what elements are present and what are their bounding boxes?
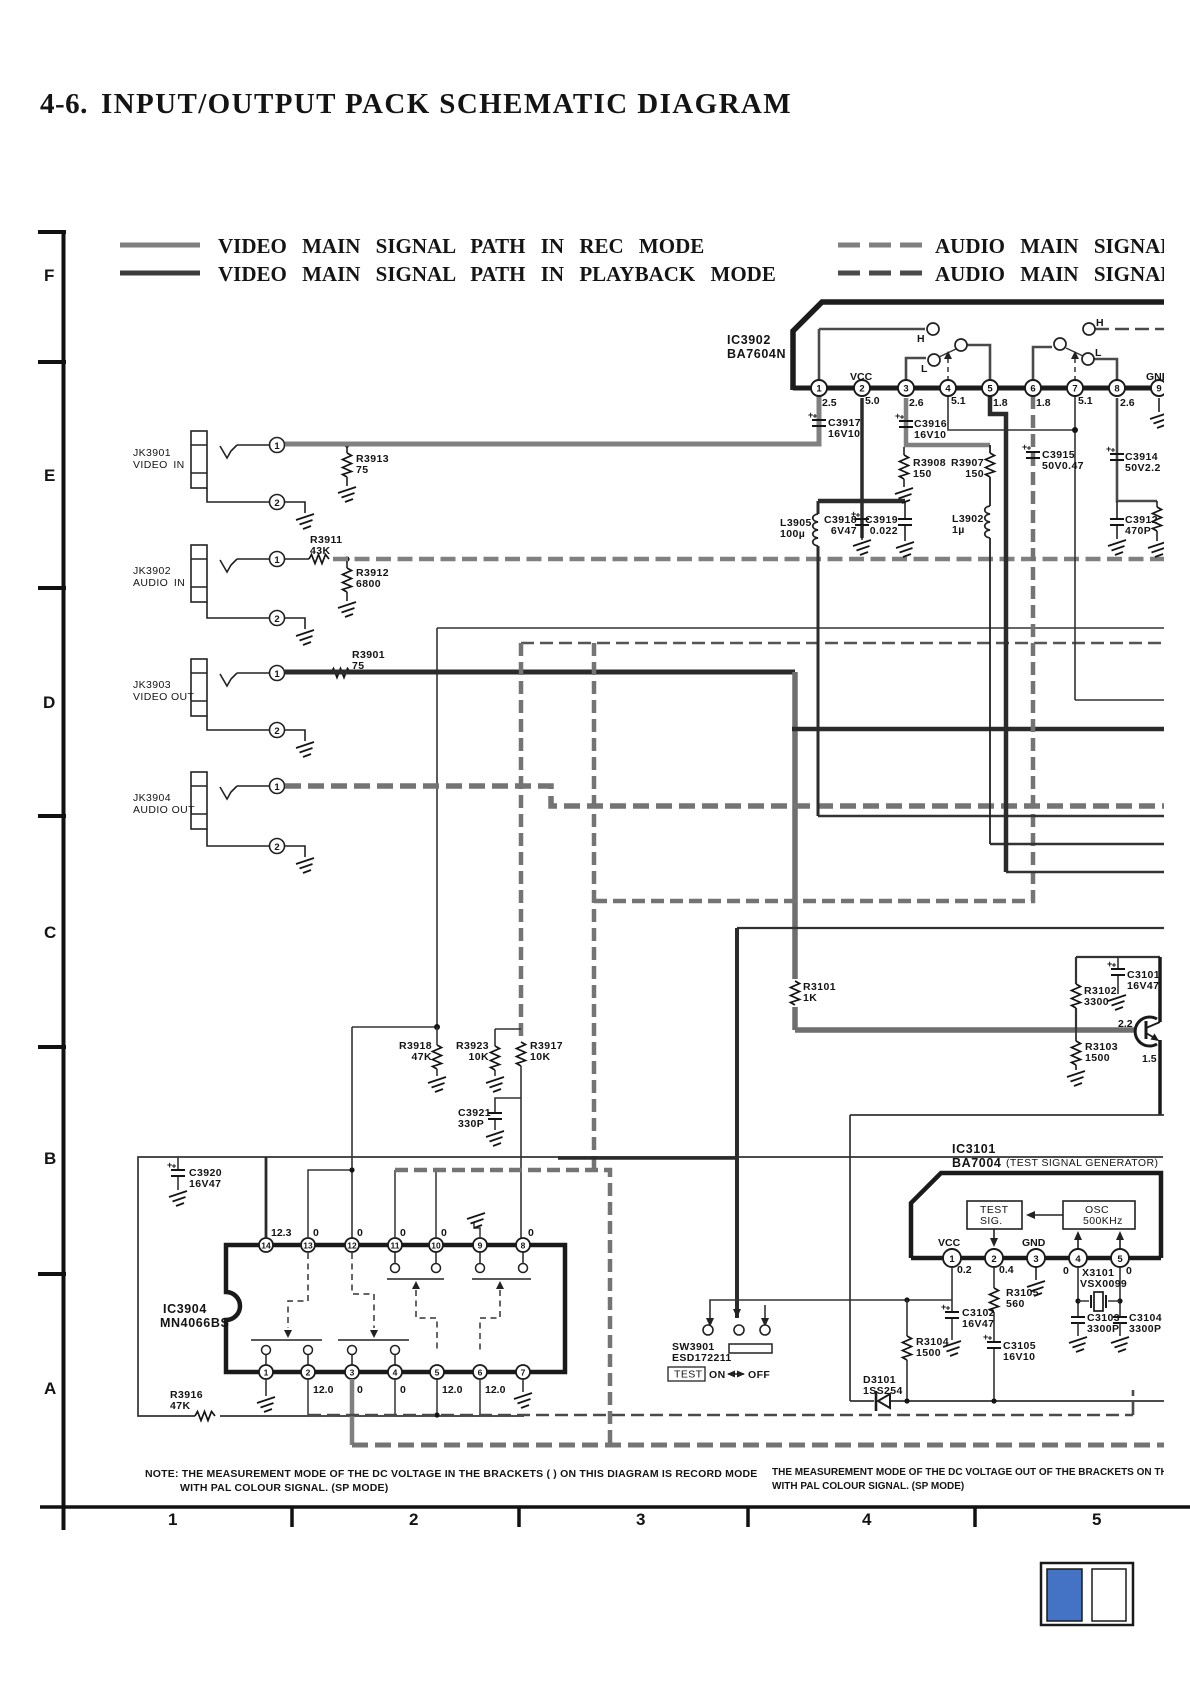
svg-text:4: 4 [862, 1510, 872, 1529]
svg-text:10K: 10K [469, 1051, 489, 1063]
svg-text:7: 7 [1072, 384, 1077, 395]
svg-text:VIDEO MAIN SIGNAL PATH IN PLAY: VIDEO MAIN SIGNAL PATH IN PLAYBACK MODE [218, 262, 776, 286]
svg-text:47K: 47K [170, 1400, 190, 1412]
svg-text:8: 8 [1114, 384, 1119, 395]
svg-text:5: 5 [1117, 1254, 1123, 1265]
svg-text:100µ: 100µ [780, 528, 805, 540]
svg-text:VSX0099: VSX0099 [1080, 1278, 1127, 1290]
svg-text:0: 0 [313, 1227, 319, 1239]
svg-text:2.2: 2.2 [1118, 1018, 1133, 1030]
svg-text:330P: 330P [458, 1118, 484, 1130]
svg-text:2.6: 2.6 [909, 397, 924, 409]
svg-text:JK3904: JK3904 [133, 792, 171, 804]
svg-text:4-6.: 4-6. [40, 88, 88, 120]
svg-text:H: H [1096, 317, 1104, 329]
svg-text:3300P: 3300P [1087, 1323, 1119, 1335]
svg-text:5: 5 [1092, 1510, 1101, 1529]
svg-text:2: 2 [274, 842, 279, 853]
svg-text:150: 150 [913, 468, 932, 480]
svg-text:JK3903: JK3903 [133, 679, 171, 691]
svg-text:IC3101: IC3101 [952, 1142, 996, 1156]
svg-text:IC3904: IC3904 [163, 1302, 207, 1316]
svg-text:(TEST SIGNAL GENERATOR): (TEST SIGNAL GENERATOR) [1006, 1157, 1158, 1169]
svg-text:VCC: VCC [850, 371, 873, 383]
svg-text:6800: 6800 [356, 578, 381, 590]
svg-text:16V47: 16V47 [189, 1178, 221, 1190]
svg-text:16V10: 16V10 [828, 428, 860, 440]
svg-text:ON: ON [709, 1369, 726, 1381]
svg-text:VIDEO MAIN SIGNAL PATH IN REC: VIDEO MAIN SIGNAL PATH IN REC MODE [218, 234, 704, 258]
svg-text:VIDEO IN: VIDEO IN [133, 459, 185, 471]
svg-text:4: 4 [393, 1368, 398, 1378]
svg-text:MN4066BS: MN4066BS [160, 1316, 229, 1330]
svg-text:0: 0 [400, 1227, 406, 1239]
svg-text:1.8: 1.8 [1036, 397, 1051, 409]
svg-text:0: 0 [400, 1384, 406, 1396]
svg-text:1: 1 [274, 782, 280, 793]
svg-text:3: 3 [636, 1510, 645, 1529]
svg-text:2: 2 [274, 498, 279, 509]
svg-text:0: 0 [1063, 1265, 1069, 1277]
svg-text:JK3902: JK3902 [133, 565, 171, 577]
svg-text:6: 6 [1030, 384, 1035, 395]
svg-text:4: 4 [945, 384, 951, 395]
svg-text:AUDIO MAIN SIGNAL PATH: AUDIO MAIN SIGNAL PATH [935, 262, 1190, 286]
svg-text:12.0: 12.0 [442, 1384, 463, 1396]
svg-text:INPUT/OUTPUT PACK SCHEMATIC DI: INPUT/OUTPUT PACK SCHEMATIC DIAGRAM [101, 88, 792, 120]
svg-text:2.6: 2.6 [1120, 397, 1135, 409]
svg-text:2: 2 [409, 1510, 418, 1529]
svg-text:5: 5 [435, 1368, 440, 1378]
svg-text:A: A [44, 1379, 56, 1398]
svg-text:C: C [44, 923, 56, 942]
svg-text:8: 8 [521, 1241, 526, 1251]
svg-text:1K: 1K [803, 992, 817, 1004]
svg-text:2: 2 [274, 614, 279, 625]
svg-text:6: 6 [478, 1368, 483, 1378]
svg-text:43K: 43K [310, 545, 330, 557]
svg-text:WITH PAL COLOUR SIGNAL. (SP MO: WITH PAL COLOUR SIGNAL. (SP MODE) [772, 1481, 964, 1492]
svg-text:NOTE: THE MEASUREMENT MODE OF: NOTE: THE MEASUREMENT MODE OF THE DC VOL… [145, 1468, 757, 1480]
svg-text:3300: 3300 [1084, 996, 1109, 1008]
svg-text:1: 1 [274, 555, 280, 566]
svg-text:5.1: 5.1 [951, 395, 966, 407]
svg-text:10K: 10K [530, 1051, 550, 1063]
svg-text:0: 0 [357, 1227, 363, 1239]
svg-text:AUDIO IN: AUDIO IN [133, 577, 185, 589]
svg-text:0.2: 0.2 [957, 1264, 972, 1276]
svg-text:16V10: 16V10 [1003, 1351, 1035, 1363]
svg-text:500KHz: 500KHz [1083, 1215, 1123, 1227]
svg-text:1SS254: 1SS254 [863, 1385, 903, 1397]
svg-text:16V10: 16V10 [914, 429, 946, 441]
svg-text:0.4: 0.4 [999, 1264, 1014, 1276]
svg-text:1: 1 [264, 1368, 269, 1378]
svg-text:5: 5 [987, 384, 993, 395]
svg-text:16V47: 16V47 [1127, 980, 1159, 992]
svg-text:12.0: 12.0 [485, 1384, 506, 1396]
svg-text:AUDIO MAIN SIGNAL PATH: AUDIO MAIN SIGNAL PATH [935, 234, 1190, 258]
svg-text:1: 1 [274, 441, 280, 452]
svg-text:H: H [917, 333, 925, 345]
svg-text:5.0: 5.0 [865, 395, 880, 407]
svg-text:BA7004: BA7004 [952, 1156, 1001, 1170]
svg-text:B: B [44, 1149, 56, 1168]
svg-text:11: 11 [391, 1241, 400, 1251]
svg-text:47K: 47K [412, 1051, 432, 1063]
svg-text:E: E [44, 466, 55, 485]
svg-text:12.0: 12.0 [313, 1384, 334, 1396]
svg-text:50V0.47: 50V0.47 [1042, 460, 1084, 472]
svg-text:2: 2 [991, 1254, 996, 1265]
svg-text:1500: 1500 [1085, 1052, 1110, 1064]
svg-text:2: 2 [859, 384, 864, 395]
svg-text:50V2.2: 50V2.2 [1125, 462, 1161, 474]
svg-text:TEST: TEST [674, 1369, 703, 1381]
svg-text:0.022: 0.022 [870, 525, 898, 537]
svg-text:1µ: 1µ [952, 524, 965, 536]
svg-text:1: 1 [168, 1510, 177, 1529]
svg-text:JK3901: JK3901 [133, 447, 171, 459]
svg-text:3: 3 [1033, 1254, 1038, 1265]
svg-text:5.1: 5.1 [1078, 395, 1093, 407]
svg-text:ESD172211: ESD172211 [672, 1352, 732, 1364]
svg-text:1.5: 1.5 [1142, 1053, 1157, 1065]
svg-text:IC3902: IC3902 [727, 333, 771, 347]
svg-text:75: 75 [356, 464, 368, 476]
svg-text:D: D [43, 693, 55, 712]
svg-text:THE MEASUREMENT MODE OF THE DC: THE MEASUREMENT MODE OF THE DC VOLTAGE O… [772, 1467, 1175, 1478]
svg-text:0: 0 [441, 1227, 447, 1239]
svg-text:9: 9 [478, 1241, 483, 1251]
svg-text:10: 10 [431, 1241, 441, 1251]
svg-text:12.3: 12.3 [271, 1227, 292, 1239]
svg-text:16V47: 16V47 [962, 1318, 994, 1330]
svg-text:1: 1 [949, 1254, 955, 1265]
svg-text:150: 150 [965, 468, 984, 480]
svg-text:L: L [1095, 347, 1102, 359]
svg-text:1.8: 1.8 [993, 397, 1008, 409]
svg-text:1: 1 [274, 669, 280, 680]
svg-text:VCC: VCC [938, 1237, 961, 1249]
svg-text:7: 7 [521, 1368, 526, 1378]
svg-text:470P: 470P [1125, 525, 1151, 537]
svg-text:14: 14 [261, 1241, 271, 1251]
svg-text:0: 0 [357, 1384, 363, 1396]
svg-text:WITH PAL COLOUR SIGNAL. (SP MO: WITH PAL COLOUR SIGNAL. (SP MODE) [180, 1482, 388, 1494]
svg-text:0: 0 [1126, 1265, 1132, 1277]
svg-text:3300P: 3300P [1129, 1323, 1161, 1335]
svg-text:GND: GND [1022, 1237, 1046, 1249]
svg-text:2.5: 2.5 [822, 397, 837, 409]
svg-text:4: 4 [1075, 1254, 1081, 1265]
svg-text:0: 0 [528, 1227, 534, 1239]
svg-text:VIDEO OUT: VIDEO OUT [133, 691, 195, 703]
svg-text:6V47: 6V47 [831, 525, 857, 537]
svg-text:12: 12 [347, 1241, 357, 1251]
svg-text:3: 3 [903, 384, 908, 395]
svg-text:2: 2 [274, 726, 279, 737]
svg-text:2: 2 [306, 1368, 311, 1378]
svg-text:9: 9 [1156, 384, 1161, 395]
svg-text:1500: 1500 [916, 1347, 941, 1359]
svg-text:F: F [44, 266, 54, 285]
svg-text:SIG.: SIG. [980, 1215, 1003, 1227]
svg-text:OFF: OFF [748, 1369, 770, 1381]
svg-text:AUDIO OUT: AUDIO OUT [133, 804, 195, 816]
svg-text:560: 560 [1006, 1298, 1025, 1310]
svg-text:3: 3 [350, 1368, 355, 1378]
svg-text:L: L [921, 363, 928, 375]
svg-text:1: 1 [816, 384, 822, 395]
svg-text:BA7604N: BA7604N [727, 347, 786, 361]
svg-text:13: 13 [303, 1241, 313, 1251]
